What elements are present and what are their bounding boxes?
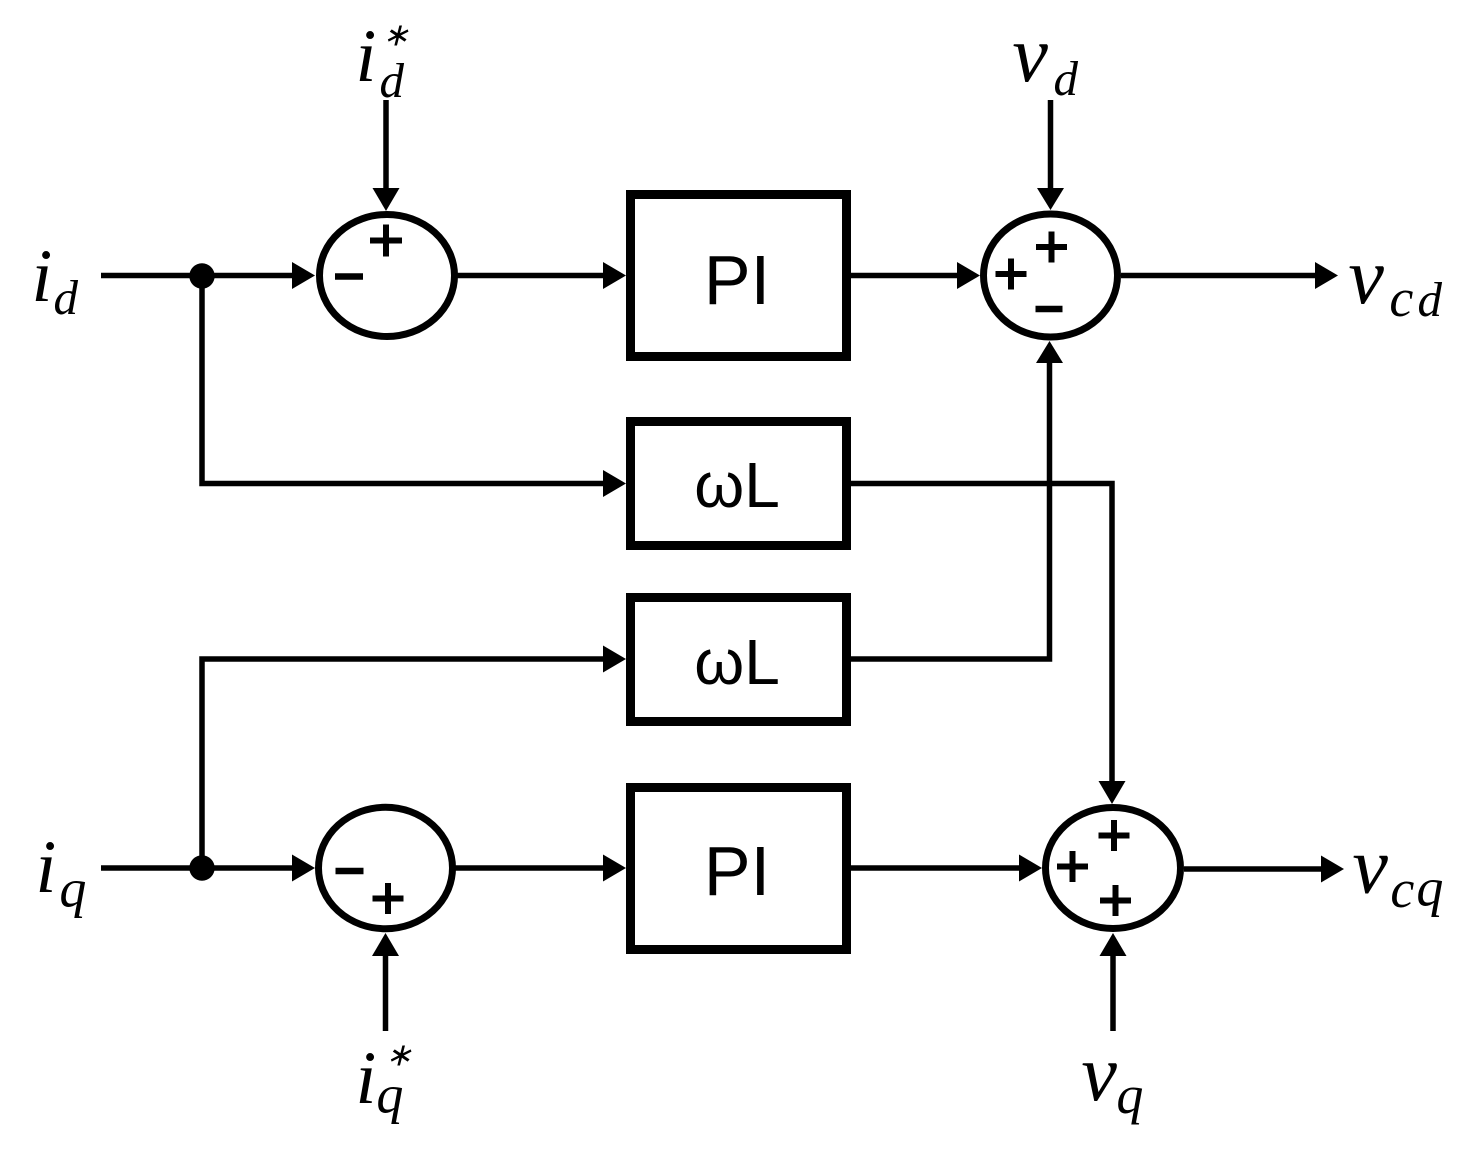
svg-text:c: c	[1389, 268, 1413, 328]
node vcd label	[1348, 233, 1442, 328]
node vcq label	[1352, 823, 1443, 920]
node vd label	[1012, 11, 1078, 106]
wire id to wL1	[202, 276, 626, 498]
svg-text:d: d	[1054, 51, 1079, 106]
wire PI2 to S3	[851, 855, 1042, 882]
junction dot iq	[189, 855, 214, 880]
svg-text:d: d	[54, 270, 79, 325]
svg-text:PI: PI	[704, 832, 770, 910]
svg-text:i: i	[356, 1037, 377, 1120]
svg-text:v: v	[1348, 233, 1384, 321]
output wire vcd	[1121, 262, 1338, 289]
node vq label	[1081, 1030, 1143, 1125]
svg-text:ωL: ωL	[694, 626, 780, 698]
svg-text:v: v	[1352, 823, 1388, 911]
node id label	[32, 235, 79, 325]
summing junction S1	[320, 215, 455, 337]
svg-text:∗: ∗	[382, 16, 409, 52]
summing junction S3	[1046, 808, 1181, 929]
node iqref label	[356, 1036, 413, 1124]
svg-text:q: q	[1416, 857, 1443, 917]
svg-text:c: c	[1390, 859, 1414, 919]
wL block 2	[631, 598, 847, 722]
summing junction S4	[319, 807, 453, 929]
S2 plus sign left	[996, 259, 1027, 290]
summing junction S2	[984, 214, 1118, 337]
svg-text:d: d	[380, 53, 405, 108]
svg-text:v: v	[1012, 11, 1048, 99]
wire PI1 to S2	[851, 262, 980, 289]
node idref label	[356, 15, 410, 108]
output wire vcq	[1184, 856, 1344, 883]
S1 plus sign	[370, 225, 402, 257]
svg-text:i: i	[36, 826, 57, 909]
S2 minus sign bottom	[1036, 306, 1063, 313]
svg-text:ωL: ωL	[694, 449, 780, 521]
svg-text:PI: PI	[704, 241, 770, 319]
S3 plus sign left	[1057, 851, 1088, 882]
wire id input	[101, 262, 315, 289]
junction dot id	[189, 263, 214, 288]
svg-text:q: q	[1116, 1065, 1143, 1125]
svg-text:i: i	[356, 15, 377, 98]
wire idref input arrow	[373, 100, 400, 211]
wire wL2 output to S2 bottom	[851, 341, 1063, 659]
wire S1 to PI1	[455, 262, 626, 289]
svg-text:q: q	[59, 858, 86, 918]
wire S4 to PI2	[453, 855, 626, 882]
S4 minus sign	[336, 868, 364, 875]
wire iq to wL2	[202, 646, 626, 869]
S3 plus sign bottom	[1100, 885, 1131, 916]
S3 plus sign top	[1099, 820, 1130, 851]
node iq label	[36, 826, 87, 918]
wire iqref input arrow	[372, 933, 399, 1031]
wire wL1 output to S3 top	[851, 484, 1126, 805]
S4 plus sign bottom	[373, 883, 404, 914]
svg-text:q: q	[376, 1064, 403, 1124]
wL block 1	[631, 422, 847, 546]
S2 plus sign top	[1036, 232, 1067, 263]
svg-text:v: v	[1081, 1030, 1117, 1118]
PI block 2	[631, 788, 847, 950]
wire iq input	[101, 855, 315, 882]
svg-text:d: d	[1418, 272, 1443, 327]
svg-text:i: i	[32, 235, 53, 318]
S1 minus sign	[335, 273, 363, 280]
wire vd input arrow	[1037, 100, 1064, 210]
wire vq input arrow	[1100, 933, 1127, 1031]
PI block 1	[631, 195, 847, 357]
